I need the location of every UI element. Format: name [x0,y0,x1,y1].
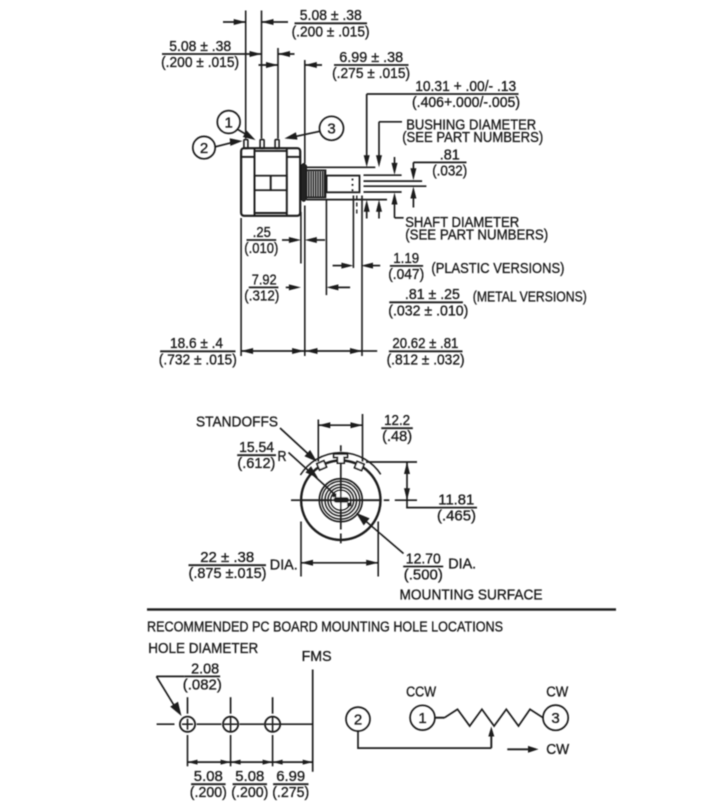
bushing bottom extension line [307,199,388,201]
body left extension line [240,218,242,356]
svg-text:(.732 ± .015): (.732 ± .015) [159,351,237,368]
knurl ring 5 [331,490,351,510]
hole 1 [180,717,195,732]
svg-text:18.6 ± .4: 18.6 ± .4 [170,335,223,352]
dim 11.81 dimension line [406,462,408,508]
leader 1 arrow [238,129,249,135]
svg-text:.81 ± .25: .81 ± .25 [405,286,460,303]
extension line pin2 [261,11,263,139]
shaft slot center [333,492,349,508]
holes horizontal centerline [157,723,175,725]
dim 12.2 dimension line [318,424,362,426]
svg-text:(.200): (.200) [231,784,268,801]
wire terminal2 to wiper [358,731,491,748]
pot body right flange edge [286,148,288,216]
svg-text:HOLE DIAMETER: HOLE DIAMETER [148,640,258,657]
knurl ring 1 [319,479,362,522]
dim 22 left extension line [300,522,302,577]
svg-text:(.406+.000/-.005): (.406+.000/-.005) [412,94,520,111]
dim 6.99 dimension line [259,64,279,66]
svg-text:MOUNTING SURFACE: MOUNTING SURFACE [400,586,543,603]
svg-text:20.62 ± .81: 20.62 ± .81 [392,335,458,352]
extension line pin3 [277,48,279,139]
separator line [147,608,616,610]
dim 12.2 right extension line [362,414,364,462]
slot top extension line [364,180,423,182]
svg-text:5.08: 5.08 [194,768,223,785]
standoffs leader [280,428,315,460]
shaft thread runout edge [326,176,328,193]
svg-text:.25: .25 [253,224,271,241]
bushing diameter leader [379,121,402,123]
leader circle 1 [217,111,240,134]
svg-text:6.99 ± .38: 6.99 ± .38 [339,49,403,66]
pot body center top edge [255,150,287,152]
wire terminal1 to resistor [435,717,445,719]
pot body left ear cap [241,156,254,158]
knurl ring 3 [325,484,357,516]
svg-text:(.047): (.047) [388,266,424,283]
svg-text:(.465): (.465) [437,508,476,525]
svg-text:5.08 ± .38: 5.08 ± .38 [300,7,362,24]
hole diameter leader [156,675,184,677]
radius leader line [289,453,335,495]
hole spacing dimension line [188,761,313,763]
pin 3 [275,140,279,149]
washer left extension line [300,212,302,264]
shaft [326,176,360,193]
svg-text:1: 1 [225,114,233,131]
standoff tab top [334,454,348,463]
front view vertical centerline [340,445,342,451]
pin 1 [244,140,248,149]
svg-text:1.19: 1.19 [393,250,419,267]
standoff arc radius 15.54 [300,453,380,475]
svg-text:STANDOFFS: STANDOFFS [196,414,278,431]
front view body circle [301,461,380,540]
hole 1 vertical centerline [187,697,189,714]
svg-text:5.08 ± .38: 5.08 ± .38 [169,38,231,55]
svg-text:(.082): (.082) [183,676,222,693]
svg-text:(.200 ± .015): (.200 ± .015) [292,23,370,40]
svg-text:RECOMMENDED PC BOARD MOUNTING: RECOMMENDED PC BOARD MOUNTING HOLE LOCAT… [147,619,503,636]
dim 11.81 top extension line [366,461,417,463]
svg-text:(PLASTIC VERSIONS): (PLASTIC VERSIONS) [431,260,564,277]
svg-text:(.010): (.010) [244,240,278,257]
slot depth extension line [352,196,354,269]
threaded bushing [307,170,326,197]
svg-text:R: R [278,448,287,465]
dim 7.92 arrows [286,286,294,288]
svg-text:2: 2 [354,711,362,728]
shaft slot dots [352,179,354,181]
svg-text:15.54: 15.54 [239,439,274,456]
svg-text:12.70: 12.70 [406,550,441,567]
svg-text:DIA.: DIA. [270,557,298,574]
dim 22 dimension line [301,562,378,564]
svg-text:3: 3 [551,710,559,727]
wiper arrow [490,734,492,748]
svg-text:.81: .81 [440,146,460,163]
slot bottom extension line [364,185,427,187]
svg-text:1: 1 [418,710,426,727]
dim .81 slot leader [413,161,433,163]
svg-text:12.2: 12.2 [384,412,410,429]
dim 22 right extension line [377,522,379,577]
hole 2 vertical centerline [230,697,232,714]
pot body left flange edge [254,148,256,216]
standoff right square [355,461,365,470]
terminal 1 circle [410,705,435,730]
dim 5.08 left dimension line [239,53,262,55]
centerline extension for 11.81 [395,499,417,501]
svg-text:(SEE PART NUMBERS): (SEE PART NUMBERS) [405,226,548,243]
svg-text:(.200 ± .015): (.200 ± .015) [161,54,239,71]
mounting face lower extension line [304,206,306,357]
shaft diameter upper arrow [394,157,396,165]
dim 5.08 top dimension line [223,21,246,23]
hole 2 [223,717,238,732]
svg-text:(.275 ± .015): (.275 ± .015) [332,65,410,82]
bottom dimension line [241,350,363,352]
svg-text:22 ± .38: 22 ± .38 [200,549,254,566]
svg-text:(.612): (.612) [237,455,275,472]
svg-text:(.48): (.48) [382,428,412,445]
svg-text:6.99: 6.99 [276,768,305,785]
pin 2 [260,140,264,149]
svg-text:DIA.: DIA. [448,556,476,573]
svg-text:(METAL VERSIONS): (METAL VERSIONS) [473,288,587,305]
terminal 2 circle [346,707,370,731]
leader 2 arrow [215,143,231,147]
shaft end hidden dash line [356,196,358,216]
svg-text:2: 2 [200,140,208,157]
leader 3 arrow [295,131,320,136]
bushing top extension line [307,166,376,168]
svg-text:(.875 ±.015): (.875 ±.015) [189,565,267,582]
front view horizontal centerline [291,499,300,501]
dim 1.19 arrows [333,265,346,267]
knurl ring 4 [328,487,354,513]
terminal 3 circle [543,705,568,730]
svg-text:(.500): (.500) [404,567,443,584]
pot terminal window [255,176,287,191]
resistor element [445,709,544,726]
pot body right ear cap [287,156,300,158]
thread end extension line [325,200,327,295]
hole 3 [265,717,280,732]
svg-text:(.200): (.200) [190,784,227,801]
dim .25 arrows [282,239,294,241]
knurl ring 2 [322,481,360,519]
svg-text:(.032): (.032) [432,162,467,179]
svg-text:(SEE PART NUMBERS): (SEE PART NUMBERS) [402,129,543,146]
pot body outline [241,148,300,216]
extension line mounting face [304,60,306,164]
dim 12.2 left extension line [317,420,319,462]
leader circle 3 [320,116,344,140]
dim .81 slot lower arrow [412,197,414,208]
shaft diameter leader [395,217,404,219]
svg-text:CW: CW [546,684,569,701]
leader circle 2 [193,136,215,158]
svg-text:7.92: 7.92 [252,271,277,288]
svg-text:10.31 + .00/- .13: 10.31 + .00/- .13 [415,78,516,95]
svg-text:2.08: 2.08 [191,660,219,677]
standoff left square [317,461,327,470]
svg-text:(.275): (.275) [272,784,309,801]
bushing diameter lower arrow [378,211,380,219]
svg-text:(.032 ± .010): (.032 ± .010) [388,302,468,319]
pot terminal window divider [270,176,272,191]
svg-text:CW: CW [546,741,570,758]
pot body center bottom edge [255,212,287,214]
dim 12.70 leader [360,516,404,553]
svg-text:3: 3 [327,121,335,138]
CW direction arrow [507,748,530,750]
shaft top extension line [364,174,402,176]
svg-text:(.312): (.312) [244,287,279,304]
FMS line [312,670,314,772]
lockwasher [301,164,307,202]
shaft end extension line [361,196,363,357]
dim 10.31 leader [367,93,413,95]
shaft bottom extension line [364,191,402,193]
svg-text:(.812 ± .032): (.812 ± .032) [387,351,465,368]
hole 3 vertical centerline [272,697,274,714]
svg-text:CCW: CCW [406,684,437,701]
svg-text:5.08: 5.08 [235,768,264,785]
svg-text:FMS: FMS [302,648,332,665]
dim 10.31 lower arrow [366,211,368,219]
extension line pin1 [245,11,247,139]
svg-text:11.81: 11.81 [438,492,474,509]
